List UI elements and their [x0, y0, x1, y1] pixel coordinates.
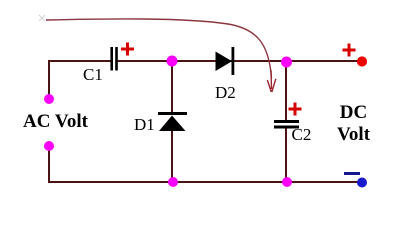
label C1: [83, 65, 103, 85]
node top junction D1: [167, 56, 178, 67]
label D1: [134, 115, 155, 135]
label DC Volt: [333, 102, 374, 146]
wire D1 branch upper: [171, 61, 173, 113]
wire C2 branch upper: [285, 61, 287, 120]
label AC Volt: [23, 111, 88, 133]
wire left vertical upper segment: [48, 60, 50, 95]
wire D1 branch lower: [171, 130, 173, 182]
diode D1: [158, 112, 187, 115]
DC output plus sign: [343, 44, 356, 57]
node AC terminal lower: [44, 141, 54, 151]
annotation arrow curve: [46, 19, 272, 78]
wire bottom rail: [48, 181, 361, 183]
node top junction C2: [281, 57, 292, 68]
node bottom junction C2: [282, 177, 292, 187]
label C2: [292, 125, 312, 145]
wire C2 branch lower: [285, 128, 287, 182]
capacitor C2 plates: [274, 120, 299, 123]
wire top rail left of C1: [48, 60, 111, 62]
node DC plus terminal: [357, 56, 367, 66]
wire top rail C1 to DC+ terminal: [118, 60, 362, 62]
node bottom junction D1: [168, 177, 178, 187]
capacitor C2 polarity plus: [289, 103, 302, 116]
capacitor C1 polarity plus: [121, 43, 134, 56]
faint pencil mark at arrow start: [39, 15, 45, 21]
node AC terminal upper: [44, 94, 54, 104]
capacitor C1 plates: [110, 47, 113, 71]
label D2: [215, 83, 236, 103]
diode D2: [216, 52, 233, 72]
annotation arrowhead: [267, 70, 276, 92]
node DC minus terminal: [357, 178, 367, 188]
wire left vertical lower segment: [48, 150, 50, 182]
DC output minus sign: [344, 172, 360, 175]
